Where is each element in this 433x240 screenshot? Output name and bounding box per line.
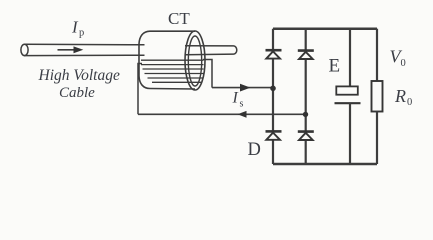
capacitor E branch wire top <box>349 29 351 87</box>
diode D3 (bottom left) <box>266 131 282 139</box>
diode D4 (bottom right) <box>298 132 314 140</box>
junction node upper (left branch) <box>270 86 276 92</box>
diode D1 (top left) <box>266 50 282 58</box>
svg-text:R: R <box>394 86 406 106</box>
junction node lower (right branch) <box>303 112 308 117</box>
svg-text:High Voltage: High Voltage <box>38 67 120 84</box>
svg-text:0: 0 <box>407 97 412 108</box>
CT face outer ellipse <box>185 31 205 90</box>
svg-text:E: E <box>329 56 341 77</box>
Is arrow right <box>240 84 251 92</box>
capacitor E bottom plate <box>335 102 361 104</box>
bridge top rail <box>273 27 377 30</box>
Is wire upper (to bridge left branch) <box>212 87 273 89</box>
svg-text:Cable: Cable <box>59 85 95 101</box>
CT secondary lead upper <box>203 60 212 88</box>
svg-text:s: s <box>240 99 244 110</box>
resistor R0 branch wire bottom <box>376 112 378 165</box>
high voltage cable left segment <box>21 44 145 55</box>
svg-text:p: p <box>79 28 84 39</box>
bridge right branch wire <box>305 29 307 164</box>
CT winding turns <box>141 60 204 82</box>
bridge bottom rail <box>273 163 377 166</box>
svg-text:CT: CT <box>168 9 190 28</box>
Ip current arrow <box>58 46 84 53</box>
CT core body outline <box>139 31 195 89</box>
resistor R0 box <box>372 81 383 112</box>
capacitor E branch wire bottom <box>349 103 351 164</box>
capacitor E top plate box <box>336 86 358 94</box>
Is arrow left <box>238 111 247 118</box>
resistor R0 branch wire top <box>376 29 378 81</box>
CT face inner ellipse <box>188 36 201 86</box>
bridge left branch wire <box>272 29 274 164</box>
CT secondary lead lower <box>138 64 142 115</box>
diode D2 (top right) <box>298 51 314 59</box>
svg-text:0: 0 <box>401 58 406 69</box>
svg-text:I: I <box>232 90 239 107</box>
high voltage cable right segment <box>185 46 237 55</box>
Is wire lower (to bridge right branch) <box>138 113 305 115</box>
svg-text:D: D <box>248 140 261 160</box>
